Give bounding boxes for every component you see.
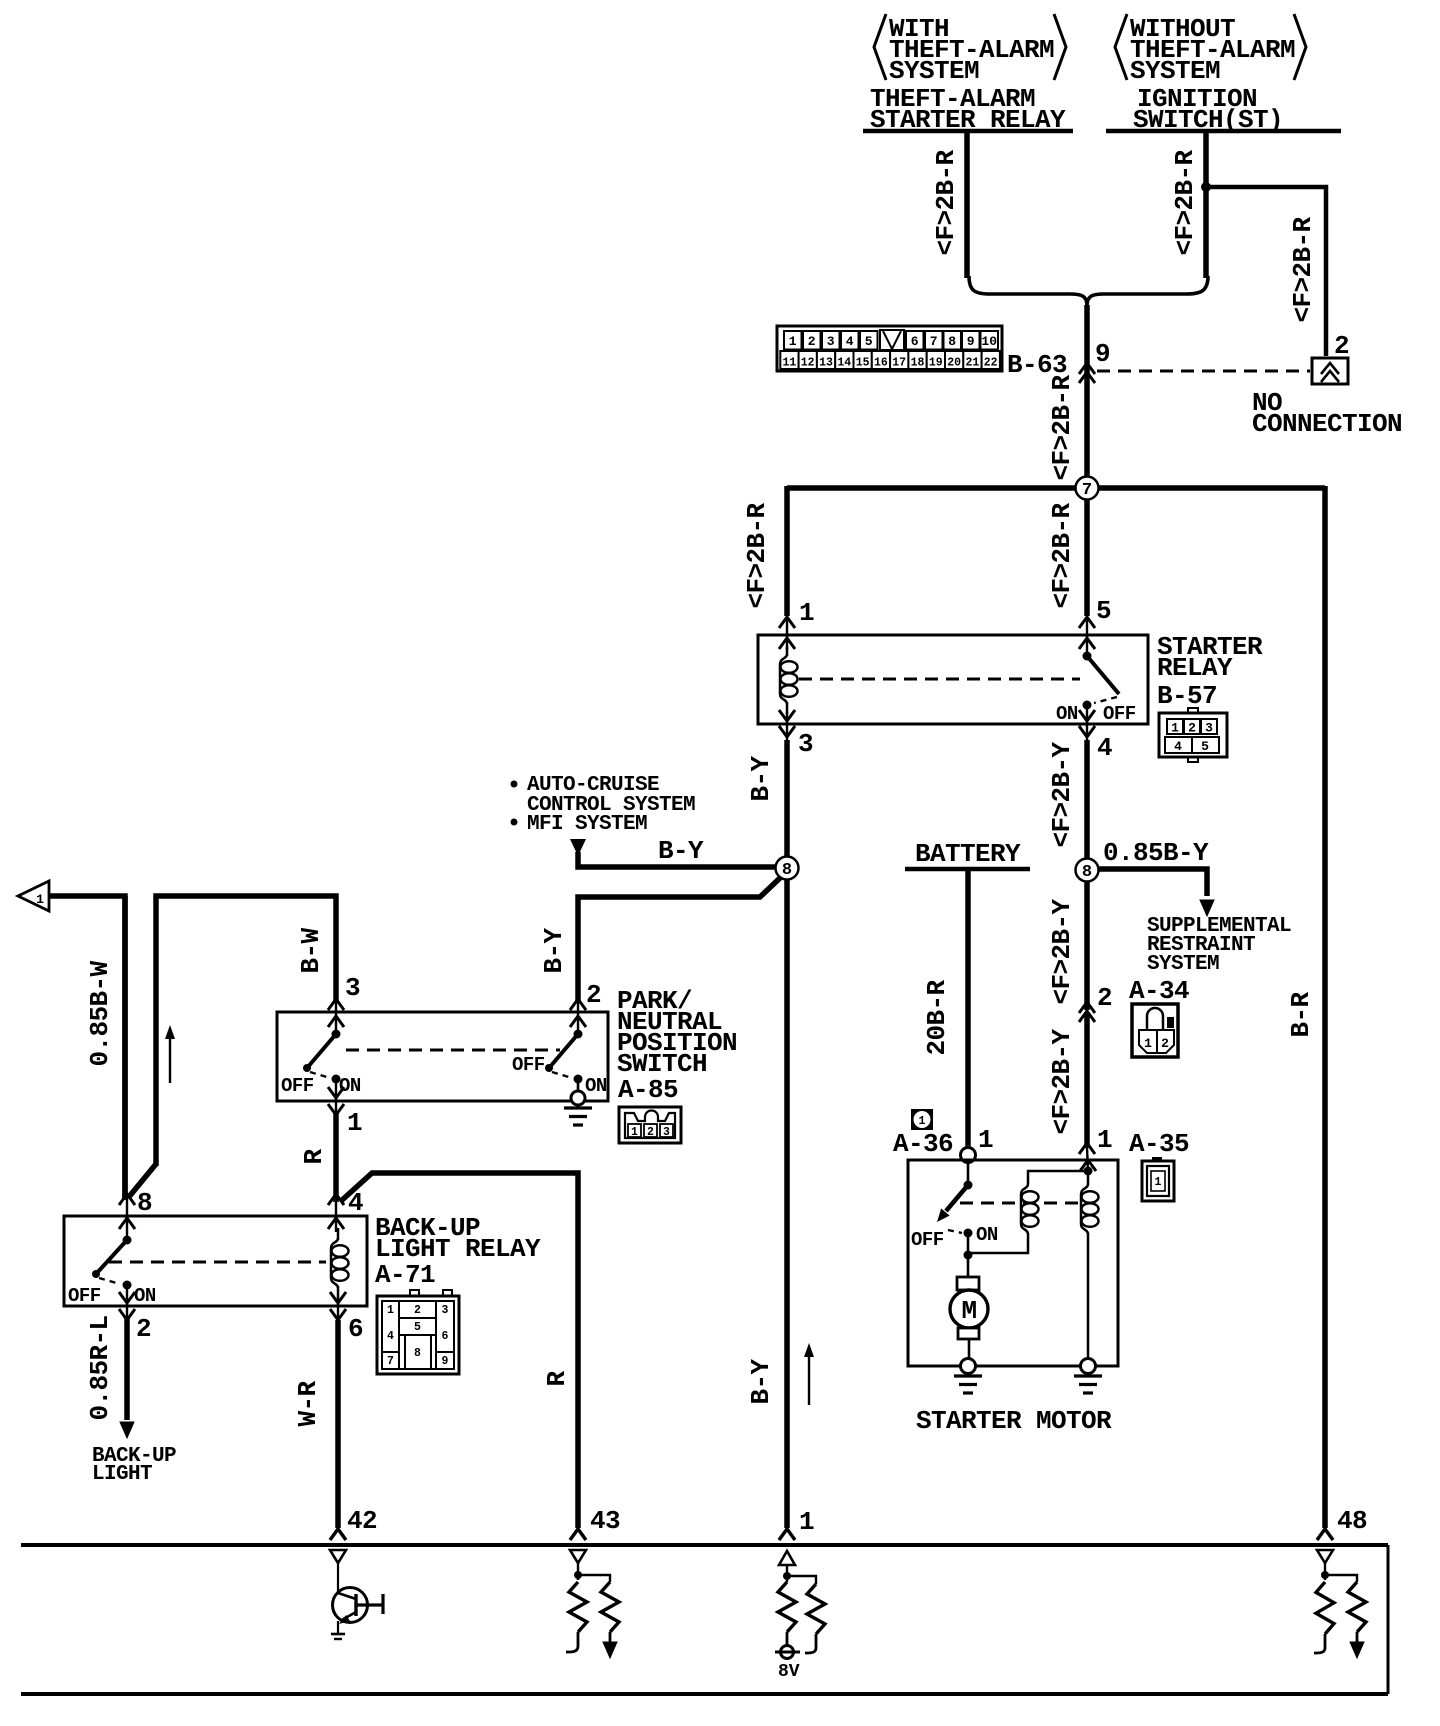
svg-text:11: 11 — [782, 357, 796, 370]
connector pass-through chevrons at A-34 pin 2 — [1079, 1002, 1095, 1022]
wire 20B-R battery to starter motor — [965, 871, 971, 1148]
wire <F>2B-Y node 8 to connector A-34 pin 2 — [1084, 882, 1090, 1010]
coil ground terminal — [1074, 1359, 1102, 1394]
hold-in coil — [1080, 1148, 1099, 1360]
motor ground terminal — [954, 1359, 982, 1394]
svg-text:OFF: OFF — [512, 1054, 545, 1076]
wire drop to starter relay pin 1 — [784, 486, 790, 616]
label STARTER RELAY B-57 — [1157, 632, 1263, 711]
svg-text:R: R — [299, 1149, 329, 1165]
svg-text:ON: ON — [1056, 703, 1078, 725]
svg-text:16: 16 — [874, 357, 888, 370]
arrow from auto-cruise systems — [570, 839, 586, 856]
svg-text:20: 20 — [947, 357, 961, 370]
current direction arrow — [804, 1343, 814, 1405]
svg-text:1: 1 — [789, 334, 797, 349]
svg-text:19: 19 — [929, 357, 943, 370]
magnetic switch contact arm — [937, 1162, 973, 1238]
svg-text:9: 9 — [1095, 339, 1110, 369]
component IGNITION SWITCH (ST) (off-page) — [1106, 84, 1341, 135]
wire right branch B-R down page — [1322, 486, 1328, 1528]
terminal 48 — [1317, 1506, 1367, 1540]
svg-text:R: R — [542, 1371, 572, 1387]
node 8 (right) — [1076, 859, 1099, 882]
svg-text:M: M — [961, 1296, 976, 1326]
motor M armature — [950, 1277, 988, 1359]
dashed actuation link — [960, 1202, 1078, 1205]
svg-text:4: 4 — [1097, 733, 1112, 763]
svg-text:1: 1 — [799, 598, 814, 628]
svg-text:8: 8 — [948, 334, 956, 349]
svg-text:2: 2 — [808, 334, 816, 349]
svg-text:43: 43 — [590, 1506, 620, 1536]
wire <F>2B-R from ignition switch — [1203, 133, 1209, 278]
wire 0.85B-W from page connector 1 — [49, 896, 125, 1200]
svg-text:10: 10 — [981, 334, 997, 349]
label NO CONNECTION — [1252, 388, 1402, 439]
svg-text:0.85R-L: 0.85R-L — [85, 1315, 115, 1420]
wire merge from B-W branch — [128, 1164, 156, 1198]
wire B-Y node 8 down to ECU terminal 1 — [784, 880, 790, 1528]
svg-text:CONNECTION: CONNECTION — [1252, 409, 1402, 439]
wire drop to starter relay pin 5 — [1084, 488, 1090, 616]
svg-text:6: 6 — [348, 1314, 363, 1344]
wire <F>2B-R into connector B-63 pin 9 — [1084, 305, 1090, 486]
svg-text:1: 1 — [978, 1125, 993, 1155]
svg-text:7: 7 — [387, 1355, 394, 1368]
no-connection terminal symbol — [1312, 358, 1348, 384]
svg-text:48: 48 — [1337, 1506, 1367, 1536]
svg-text:<F>2B-R: <F>2B-R — [1047, 375, 1077, 481]
svg-text:1: 1 — [919, 1115, 926, 1128]
wire <F>2B-Y to starter motor pin 1 — [1084, 1014, 1090, 1148]
wire <F>2B-R from theft-alarm starter relay — [964, 133, 970, 278]
svg-text:2: 2 — [647, 1126, 654, 1139]
svg-text:ON: ON — [339, 1075, 361, 1097]
label BACK-UP LIGHT — [92, 1445, 176, 1486]
arrow to supplemental restraint system — [1200, 900, 1214, 916]
pull-up/pull-down resistors at terminal 43 — [566, 1563, 619, 1652]
wire 0.85R-L to back-up light — [124, 1318, 130, 1420]
svg-text:B-R: B-R — [1286, 992, 1316, 1038]
ground at switch pin — [564, 1079, 592, 1125]
svg-text:W-R: W-R — [293, 1381, 323, 1427]
battery terminal at starter motor — [961, 1148, 976, 1163]
svg-text:21: 21 — [965, 357, 979, 370]
svg-text:3: 3 — [1205, 721, 1213, 736]
svg-text:0.85B-W: 0.85B-W — [85, 961, 115, 1067]
node 8 (left) — [776, 857, 799, 880]
label WITHOUT THEFT-ALARM SYSTEM — [1115, 14, 1306, 86]
svg-text:4: 4 — [846, 334, 854, 349]
svg-text:6: 6 — [442, 1330, 449, 1343]
svg-text:<F>2B-Y: <F>2B-Y — [1047, 1029, 1077, 1135]
terminal 42 — [330, 1506, 377, 1540]
svg-text:4: 4 — [1174, 739, 1182, 754]
svg-text:4: 4 — [387, 1330, 394, 1343]
ECU box top edge — [21, 1543, 1388, 1547]
page connector triangle 1 — [18, 881, 49, 911]
svg-text:B-57: B-57 — [1157, 681, 1217, 711]
svg-text:2: 2 — [586, 980, 601, 1010]
component BATTERY (off-page) — [905, 839, 1030, 869]
arrow to back-up light — [120, 1422, 134, 1438]
junction on ignition switch wire — [1201, 182, 1211, 192]
svg-text:5: 5 — [414, 1321, 421, 1334]
svg-text:3: 3 — [827, 334, 835, 349]
wire to motor — [967, 1233, 970, 1277]
connector A-85 pin diagram — [619, 1107, 681, 1143]
connector B-57 pin diagram — [1159, 708, 1227, 762]
svg-text:5: 5 — [865, 334, 873, 349]
8V supply symbol — [775, 1646, 800, 1683]
svg-text:7: 7 — [1082, 481, 1092, 500]
svg-text:8: 8 — [137, 1188, 152, 1218]
dashed actuation link — [109, 1261, 326, 1264]
svg-text:A-85: A-85 — [618, 1075, 678, 1105]
pin 1 terminal chevrons — [779, 614, 795, 650]
wire B-Y node 8 to park/neutral switch pin 2 — [578, 877, 781, 1003]
connector B-63 pin diagram — [777, 326, 1002, 371]
svg-text:A-34: A-34 — [1129, 976, 1189, 1006]
brace joining the two supply wires — [969, 276, 1208, 306]
svg-text:A-35: A-35 — [1129, 1129, 1189, 1159]
svg-text:3: 3 — [345, 973, 360, 1003]
connector pass-through chevrons at B-63 pin 9 — [1079, 363, 1095, 383]
svg-text:OFF: OFF — [281, 1075, 314, 1097]
svg-text:LIGHT: LIGHT — [92, 1463, 152, 1486]
connector A-36 icon — [911, 1109, 933, 1130]
pin 1 terminal chevron at A-35 — [1079, 1143, 1095, 1154]
svg-text:<F>2B-R: <F>2B-R — [931, 150, 961, 256]
ECU box right edge — [1387, 1545, 1390, 1694]
wire W-R relay pin6 to ECU terminal 42 — [335, 1320, 341, 1528]
svg-text:RELAY: RELAY — [1157, 653, 1233, 683]
wire branch to no-connection terminal — [1204, 187, 1326, 356]
svg-text:8V: 8V — [778, 1662, 800, 1682]
svg-text:B-W: B-W — [296, 928, 326, 974]
wire main feed bus — [787, 485, 1325, 491]
svg-text:1: 1 — [387, 1304, 394, 1317]
relay coil — [780, 646, 798, 714]
svg-text:B-Y: B-Y — [746, 756, 776, 802]
pin 3 terminal chevrons — [328, 999, 344, 1030]
transistor input stage at terminal 42 — [331, 1563, 383, 1639]
component THEFT-ALARM STARTER RELAY (off-page) — [863, 84, 1073, 135]
dashed actuation link — [799, 678, 1080, 681]
ground arrow at terminal 48 — [1350, 1642, 1364, 1658]
svg-text:ON: ON — [134, 1285, 156, 1307]
svg-text:1: 1 — [1097, 1125, 1112, 1155]
svg-text:B-Y: B-Y — [539, 928, 569, 974]
svg-text:8: 8 — [782, 861, 792, 880]
svg-text:18: 18 — [911, 357, 925, 370]
terminal 42 input triangle — [330, 1550, 346, 1563]
svg-text:OFF: OFF — [1103, 703, 1136, 725]
svg-text:OFF: OFF — [68, 1285, 101, 1307]
ECU box bottom edge — [21, 1692, 1388, 1696]
svg-text:1: 1 — [347, 1108, 362, 1138]
pin 2 terminal chevrons — [570, 999, 586, 1030]
wire B-Y auto-cruise to node 8 — [578, 852, 777, 867]
ground arrow at terminal 43 — [603, 1642, 617, 1658]
pin 4 wire stub and chevrons — [1079, 705, 1095, 742]
svg-text:1: 1 — [631, 1126, 638, 1139]
dashed link pin9 to no-connection — [1097, 370, 1310, 373]
dashed gang link — [346, 1049, 560, 1052]
pin 1 wire and chevrons — [328, 1079, 344, 1115]
svg-text:<F>2B-R: <F>2B-R — [742, 503, 772, 609]
label AUTO-CRUISE CONTROL SYSTEM / MFI SYSTEM — [511, 774, 696, 836]
svg-text:<F>2B-R: <F>2B-R — [1288, 217, 1318, 323]
wire 0.85B-Y branch to SRS — [1098, 869, 1207, 896]
switch box PARK/NEUTRAL POSITION SWITCH A-85 — [277, 1012, 608, 1101]
svg-text:0.85B-Y: 0.85B-Y — [1103, 838, 1209, 868]
pin 3 terminal chevrons — [779, 710, 795, 742]
svg-text:20B-R: 20B-R — [922, 979, 952, 1055]
svg-text:1: 1 — [1144, 1036, 1152, 1051]
svg-text:SYSTEM: SYSTEM — [889, 56, 979, 86]
label PARK/NEUTRAL POSITION SWITCH A-85 — [617, 986, 737, 1105]
svg-text:ON: ON — [976, 1224, 998, 1246]
terminal 43 — [570, 1506, 620, 1540]
svg-text:2: 2 — [1161, 1036, 1169, 1051]
pin 8 chevrons — [119, 1194, 135, 1242]
pin 5 terminal chevrons — [1079, 617, 1095, 649]
svg-text:B-63: B-63 — [1007, 350, 1067, 380]
svg-text:A-71: A-71 — [375, 1260, 435, 1290]
wire <F>2B-Y relay pin4 to node 8 — [1084, 740, 1090, 860]
terminal 43 input triangle — [570, 1550, 586, 1563]
label SUPPLEMENTAL RESTRAINT SYSTEM — [1147, 915, 1291, 976]
svg-text:1: 1 — [799, 1507, 814, 1537]
svg-text:OFF: OFF — [911, 1229, 944, 1251]
current direction arrow — [165, 1025, 175, 1083]
svg-text:2: 2 — [414, 1304, 421, 1317]
left switch contact (to pin 3) — [303, 1030, 341, 1084]
svg-text:22: 22 — [984, 357, 998, 370]
svg-text:A-36: A-36 — [893, 1129, 953, 1159]
pin 2 wire and chevrons — [119, 1285, 135, 1320]
svg-text:<F>2B-R: <F>2B-R — [1047, 503, 1077, 609]
svg-text:14: 14 — [837, 357, 851, 370]
svg-text:SYSTEM: SYSTEM — [1147, 953, 1219, 976]
right switch contact (to pin 2) — [545, 1030, 583, 1084]
svg-text:13: 13 — [819, 357, 833, 370]
pin 4 junction chevrons — [328, 1194, 344, 1232]
svg-text:15: 15 — [856, 357, 870, 370]
svg-text:6: 6 — [911, 334, 919, 349]
pull-up/pull-down resistors at terminal 48 — [1314, 1563, 1366, 1653]
svg-text:17: 17 — [892, 357, 906, 370]
svg-text:3: 3 — [442, 1304, 449, 1317]
relay switch arm — [92, 1236, 132, 1290]
pin 6 chevrons — [330, 1292, 346, 1324]
wire R switch pin1 to back-up relay pin 4 — [333, 1113, 339, 1202]
svg-text:2: 2 — [1097, 983, 1112, 1013]
svg-text:<F>2B-Y: <F>2B-Y — [1047, 899, 1077, 1005]
svg-text:7: 7 — [930, 334, 938, 349]
wire B-W branch to switch pin 3 — [156, 896, 336, 1166]
svg-text:1: 1 — [1171, 721, 1179, 736]
svg-text:2: 2 — [136, 1314, 151, 1344]
terminal 48 input triangle — [1317, 1550, 1333, 1563]
svg-text:3: 3 — [663, 1126, 670, 1139]
svg-text:12: 12 — [801, 357, 815, 370]
pull-in coil — [968, 1171, 1086, 1253]
svg-text:SYSTEM: SYSTEM — [1130, 56, 1220, 86]
svg-text:5: 5 — [1096, 596, 1111, 626]
connector A-34 pin diagram — [1132, 1004, 1178, 1057]
svg-text:B-Y: B-Y — [658, 836, 704, 866]
wire junction at pin 8 — [122, 896, 128, 1200]
relay coil — [331, 1228, 349, 1298]
svg-text:<F>2B-R: <F>2B-R — [1170, 150, 1200, 256]
svg-text:8: 8 — [1082, 863, 1092, 882]
connector A-71 pin diagram — [377, 1290, 459, 1374]
svg-text:BATTERY: BATTERY — [915, 839, 1021, 869]
svg-text:MFI SYSTEM: MFI SYSTEM — [527, 813, 647, 836]
label BACK-UP LIGHT RELAY A-71 — [375, 1213, 541, 1290]
relay box STARTER RELAY B-57 — [758, 635, 1148, 724]
relay box BACK-UP LIGHT RELAY A-71 — [64, 1216, 367, 1306]
voltage divider at terminal 1 — [778, 1565, 825, 1653]
svg-text:3: 3 — [798, 729, 813, 759]
svg-text:1: 1 — [1155, 1176, 1162, 1189]
label WITH THEFT-ALARM SYSTEM — [874, 14, 1066, 86]
svg-text:42: 42 — [347, 1506, 377, 1536]
svg-text:2: 2 — [1188, 721, 1196, 736]
wire B-Y relay pin3 to node 8 — [784, 740, 790, 858]
terminal 1 — [779, 1507, 814, 1540]
connector A-35 icon — [1142, 1157, 1174, 1201]
svg-text:STARTER MOTOR: STARTER MOTOR — [916, 1406, 1112, 1436]
svg-text:<F>2B-Y: <F>2B-Y — [1047, 742, 1077, 848]
node 7 — [1076, 477, 1099, 500]
svg-text:4: 4 — [348, 1188, 363, 1218]
pin 5 wire stub — [1086, 614, 1088, 656]
terminal 1 output triangle — [779, 1551, 795, 1565]
svg-text:1: 1 — [36, 892, 44, 907]
box STARTER MOTOR — [908, 1160, 1118, 1366]
svg-text:8: 8 — [414, 1347, 421, 1360]
junction to motor — [964, 1251, 973, 1260]
svg-text:9: 9 — [442, 1355, 449, 1368]
svg-text:B-Y: B-Y — [746, 1359, 776, 1405]
wire R branch to ECU terminal 43 — [341, 1173, 578, 1528]
svg-text:5: 5 — [1201, 739, 1209, 754]
relay switch arm — [1083, 652, 1120, 710]
svg-text:ON: ON — [585, 1075, 607, 1097]
svg-text:9: 9 — [967, 334, 975, 349]
